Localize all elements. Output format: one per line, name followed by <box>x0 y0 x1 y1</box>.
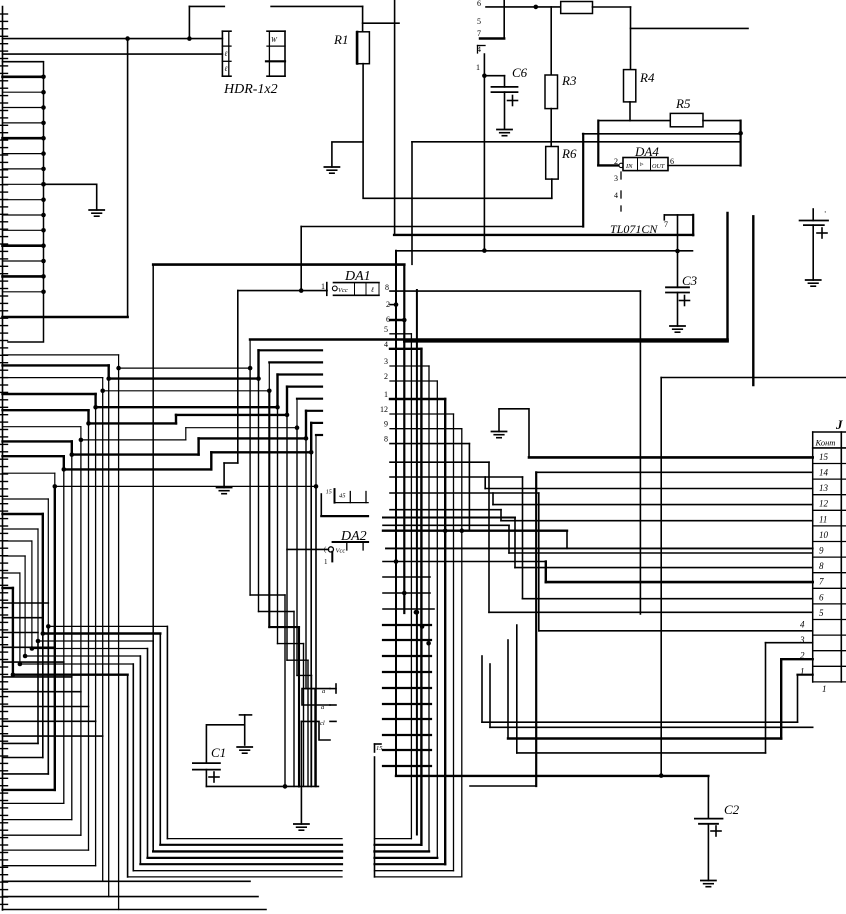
label R5 <box>675 96 691 111</box>
pin 1 <box>321 282 325 291</box>
svg-text:5: 5 <box>819 608 824 618</box>
wire <box>302 689 330 705</box>
label Konts <box>815 438 836 448</box>
resistor R4 <box>624 70 636 102</box>
svg-text:7: 7 <box>664 220 668 229</box>
pin 6 <box>386 315 404 324</box>
wire <box>493 493 813 505</box>
wire <box>3 62 44 342</box>
wire <box>152 265 154 847</box>
label TL071CN <box>610 222 658 236</box>
wire <box>374 757 376 877</box>
label DA4 <box>634 144 659 159</box>
label C3 <box>682 273 698 288</box>
pin stub <box>620 206 622 211</box>
label R4 <box>639 70 655 85</box>
svg-text:4: 4 <box>384 340 388 349</box>
wire <box>412 141 741 143</box>
wire <box>550 7 552 75</box>
wire <box>3 626 49 774</box>
pin 6 <box>670 157 674 166</box>
wire <box>598 120 670 122</box>
IC DA1 Vcc pin block <box>327 283 379 296</box>
svg-text:R3: R3 <box>561 73 577 88</box>
capacitor C2 <box>695 819 723 881</box>
svg-text:13: 13 <box>819 483 829 493</box>
wire <box>536 471 813 473</box>
svg-text:2: 2 <box>384 372 388 381</box>
ground <box>324 167 339 173</box>
wire <box>250 338 727 341</box>
label J1 <box>835 417 843 432</box>
label HDR-1x2 <box>223 82 278 97</box>
wire <box>3 602 49 604</box>
svg-text:C2: C2 <box>724 802 740 817</box>
node junction <box>659 773 664 778</box>
wire <box>127 39 129 317</box>
ground <box>237 747 252 753</box>
svg-text:OUT: OUT <box>652 163 665 170</box>
wire <box>188 6 190 38</box>
node junction <box>415 610 420 615</box>
bottom-left fan A <box>3 368 267 909</box>
svg-text:6: 6 <box>819 592 824 602</box>
svg-text:5: 5 <box>477 17 481 26</box>
label C6 <box>512 65 528 80</box>
svg-text:▹: ▹ <box>640 160 644 168</box>
wire <box>535 472 537 786</box>
node junction <box>738 131 743 136</box>
wire <box>206 725 244 763</box>
wire <box>383 525 813 553</box>
svg-text:ℓ: ℓ <box>224 50 228 58</box>
wire <box>403 265 405 613</box>
svg-text:5: 5 <box>384 325 388 334</box>
wire <box>153 263 404 266</box>
op-amp DA4 <box>623 158 668 171</box>
wire <box>508 640 813 739</box>
staircase junctions <box>53 366 319 489</box>
wire <box>390 462 813 612</box>
node junction <box>443 528 464 533</box>
wire <box>3 617 43 619</box>
capacitor C6 <box>492 76 518 129</box>
label R3 <box>561 73 577 88</box>
wire <box>237 291 239 463</box>
svg-text:15: 15 <box>376 745 383 752</box>
mid-left junctions <box>11 624 51 677</box>
wire <box>551 179 553 198</box>
wire <box>598 164 619 166</box>
lower pin joins <box>3 647 103 736</box>
ground <box>670 326 685 332</box>
wire <box>383 576 430 578</box>
wire <box>703 120 741 122</box>
wire <box>677 215 679 251</box>
svg-text:3: 3 <box>614 174 618 183</box>
wire <box>582 134 584 227</box>
wire <box>383 562 813 583</box>
svg-text:8: 8 <box>385 283 389 292</box>
wire <box>390 290 640 292</box>
svg-text:TL071CN: TL071CN <box>610 222 658 236</box>
wire <box>189 5 224 7</box>
wire <box>394 234 693 236</box>
wire <box>300 721 302 824</box>
wire <box>490 664 813 727</box>
svg-text:C1: C1 <box>211 745 226 760</box>
ground <box>806 280 821 286</box>
svg-text:4: 4 <box>614 191 618 200</box>
label 1 <box>822 684 827 694</box>
wire <box>3 641 39 743</box>
node junction <box>675 249 680 254</box>
svg-text:ℓ: ℓ <box>370 286 374 294</box>
wire <box>390 477 813 599</box>
edge connector <box>2 7 4 910</box>
wire <box>668 165 741 167</box>
svg-text:Vcc: Vcc <box>338 287 348 294</box>
node junction <box>187 36 192 41</box>
wire <box>550 109 552 147</box>
wire <box>383 592 430 594</box>
wire <box>300 227 302 291</box>
svg-text:1: 1 <box>321 282 325 291</box>
ground <box>701 881 716 887</box>
IC DA2 right pins <box>383 625 431 766</box>
IC DA2 left pins <box>320 684 336 727</box>
ground <box>492 410 507 438</box>
wire <box>707 776 709 819</box>
wire <box>395 251 397 776</box>
wire <box>3 632 39 634</box>
right staircase <box>390 334 469 877</box>
wire <box>383 518 813 568</box>
svg-text:1: 1 <box>384 390 388 399</box>
wire <box>240 714 252 716</box>
wire <box>630 7 632 70</box>
wire <box>484 75 504 77</box>
capacitor C4 <box>800 209 828 280</box>
IC sub-block <box>321 489 368 516</box>
node junction <box>482 73 487 78</box>
ground <box>89 210 104 216</box>
ground <box>294 824 309 830</box>
svg-text:R5: R5 <box>675 96 691 111</box>
svg-text:15: 15 <box>819 452 829 462</box>
wire <box>301 721 330 740</box>
svg-text:HDR-1x2: HDR-1x2 <box>223 82 278 97</box>
wire <box>3 53 223 55</box>
svg-text:1: 1 <box>324 558 328 566</box>
wire <box>404 340 727 343</box>
center verticals <box>250 368 316 786</box>
svg-text:DA1: DA1 <box>344 269 371 284</box>
capacitor C3 <box>666 251 690 326</box>
svg-text:2: 2 <box>800 651 805 661</box>
bus pin wires <box>3 62 44 292</box>
wire <box>287 548 329 550</box>
svg-text:3: 3 <box>799 635 805 645</box>
resistor R5 <box>670 113 703 126</box>
svg-text:12: 12 <box>380 405 388 414</box>
resistor R3 <box>545 75 558 109</box>
pin 7 <box>664 220 668 229</box>
pin 6 <box>477 0 481 8</box>
wire <box>383 530 567 532</box>
label C4 <box>824 207 826 217</box>
wire <box>362 6 364 31</box>
wire <box>692 215 694 235</box>
mid-left bundle <box>3 499 168 877</box>
wire <box>206 785 318 787</box>
pin 1 <box>476 63 480 72</box>
IC DA2 Vcc pin block <box>328 542 368 561</box>
node junction <box>534 5 539 10</box>
wire <box>396 775 708 777</box>
svg-text:2: 2 <box>614 157 618 166</box>
wire <box>480 37 504 39</box>
wire <box>485 477 813 489</box>
label C1 <box>211 745 226 760</box>
row labels <box>799 452 829 676</box>
wire <box>639 291 641 614</box>
pin 4 <box>614 191 621 200</box>
wire <box>517 625 813 753</box>
wire <box>629 102 631 121</box>
svg-text:15: 15 <box>326 490 332 496</box>
wire <box>660 378 662 776</box>
wire <box>593 6 631 8</box>
label R1 <box>333 32 348 47</box>
svg-text:12: 12 <box>819 499 829 509</box>
svg-text:Vcc: Vcc <box>336 548 346 555</box>
wire <box>224 463 238 488</box>
node junction <box>402 318 407 323</box>
wire <box>664 215 693 220</box>
wire <box>3 38 223 40</box>
wire <box>503 0 505 39</box>
svg-text:6: 6 <box>670 157 674 166</box>
wire <box>486 6 561 8</box>
wire <box>483 54 485 251</box>
svg-text:R4: R4 <box>639 70 655 85</box>
svg-text:11: 11 <box>819 514 827 524</box>
node junction <box>299 288 304 293</box>
node junction <box>283 784 288 789</box>
pin labels <box>380 325 388 444</box>
svg-text:C3: C3 <box>682 273 698 288</box>
label C2 <box>724 802 740 817</box>
wire <box>752 216 754 385</box>
label R6 <box>561 146 577 161</box>
node junction <box>482 248 487 253</box>
svg-text:1: 1 <box>800 666 805 676</box>
wire <box>44 184 97 210</box>
pin 3 <box>614 172 621 183</box>
wire <box>363 64 552 199</box>
connector HDR-1x2 <box>222 31 285 76</box>
svg-text:7: 7 <box>477 29 481 38</box>
pin 2 <box>614 157 618 166</box>
wire <box>390 493 813 631</box>
svg-text:ℓ: ℓ <box>224 65 228 73</box>
staircase bus left-to-DA1 <box>3 340 323 487</box>
wire <box>394 0 396 235</box>
connector J1 table <box>813 432 846 682</box>
svg-text:DA4: DA4 <box>634 144 659 159</box>
node junction <box>420 624 425 629</box>
wire <box>396 250 692 252</box>
svg-text:Конт: Конт <box>815 438 836 448</box>
edge connector pin stubs <box>0 14 8 904</box>
wire <box>499 409 529 458</box>
capacitor C1 <box>193 763 220 786</box>
svg-text:14: 14 <box>819 468 829 478</box>
svg-text:8: 8 <box>384 435 388 444</box>
node junction <box>402 591 407 596</box>
wire <box>244 715 246 745</box>
svg-text:1: 1 <box>476 63 480 72</box>
wire <box>482 656 813 722</box>
ground <box>497 130 512 136</box>
svg-text:cl: cl <box>320 720 325 727</box>
wire <box>529 456 813 459</box>
svg-text:9: 9 <box>819 546 824 556</box>
wire <box>416 290 418 835</box>
svg-text:7: 7 <box>819 577 824 587</box>
pin 5 <box>477 17 481 26</box>
wire <box>383 608 434 610</box>
svg-text:·: · <box>824 207 826 217</box>
svg-text:8: 8 <box>819 561 824 571</box>
wire <box>631 27 749 29</box>
wire <box>363 22 399 24</box>
pin 1 <box>324 546 328 567</box>
svg-text:C6: C6 <box>512 65 528 80</box>
node junction <box>41 182 46 187</box>
svg-text:J: J <box>835 417 843 432</box>
svg-text:45: 45 <box>339 493 346 500</box>
resistor R6 <box>546 147 559 180</box>
label DA2 <box>340 529 367 544</box>
wire <box>332 142 363 167</box>
bottom band <box>128 839 462 877</box>
svg-text:IN: IN <box>625 163 633 170</box>
svg-text:R1: R1 <box>333 32 348 47</box>
wire <box>3 634 43 758</box>
wire <box>661 377 846 379</box>
wire <box>301 226 583 228</box>
svg-text:R6: R6 <box>561 146 577 161</box>
wire <box>395 251 397 264</box>
node junction <box>125 36 130 41</box>
node junction <box>394 302 399 307</box>
resistor R2 <box>561 2 593 14</box>
svg-text:9: 9 <box>384 420 388 429</box>
node <box>619 163 623 167</box>
node junction <box>394 559 399 564</box>
wire <box>390 510 813 521</box>
svg-text:4: 4 <box>800 620 805 630</box>
pin 4 <box>477 45 485 54</box>
pin 8 <box>385 283 389 292</box>
wire <box>739 121 741 166</box>
svg-text:1: 1 <box>822 684 827 694</box>
pin 15 <box>375 744 384 752</box>
ground <box>217 488 232 494</box>
label DA1 <box>344 269 371 284</box>
resistor R1 <box>357 32 370 64</box>
node junction <box>414 610 419 615</box>
svg-text:3: 3 <box>384 357 388 366</box>
wire <box>238 290 327 292</box>
bus junctions <box>41 75 46 295</box>
wire <box>3 316 128 319</box>
wire <box>271 5 363 7</box>
node junction <box>426 641 431 646</box>
wire <box>726 213 728 341</box>
pin 7 <box>477 29 481 38</box>
wire <box>411 142 413 264</box>
wire <box>470 785 536 787</box>
wire <box>597 121 599 166</box>
wire <box>386 531 813 549</box>
svg-text:6: 6 <box>477 0 481 8</box>
svg-text:10: 10 <box>819 530 829 540</box>
wire <box>583 133 741 135</box>
pin 2 <box>386 300 396 309</box>
